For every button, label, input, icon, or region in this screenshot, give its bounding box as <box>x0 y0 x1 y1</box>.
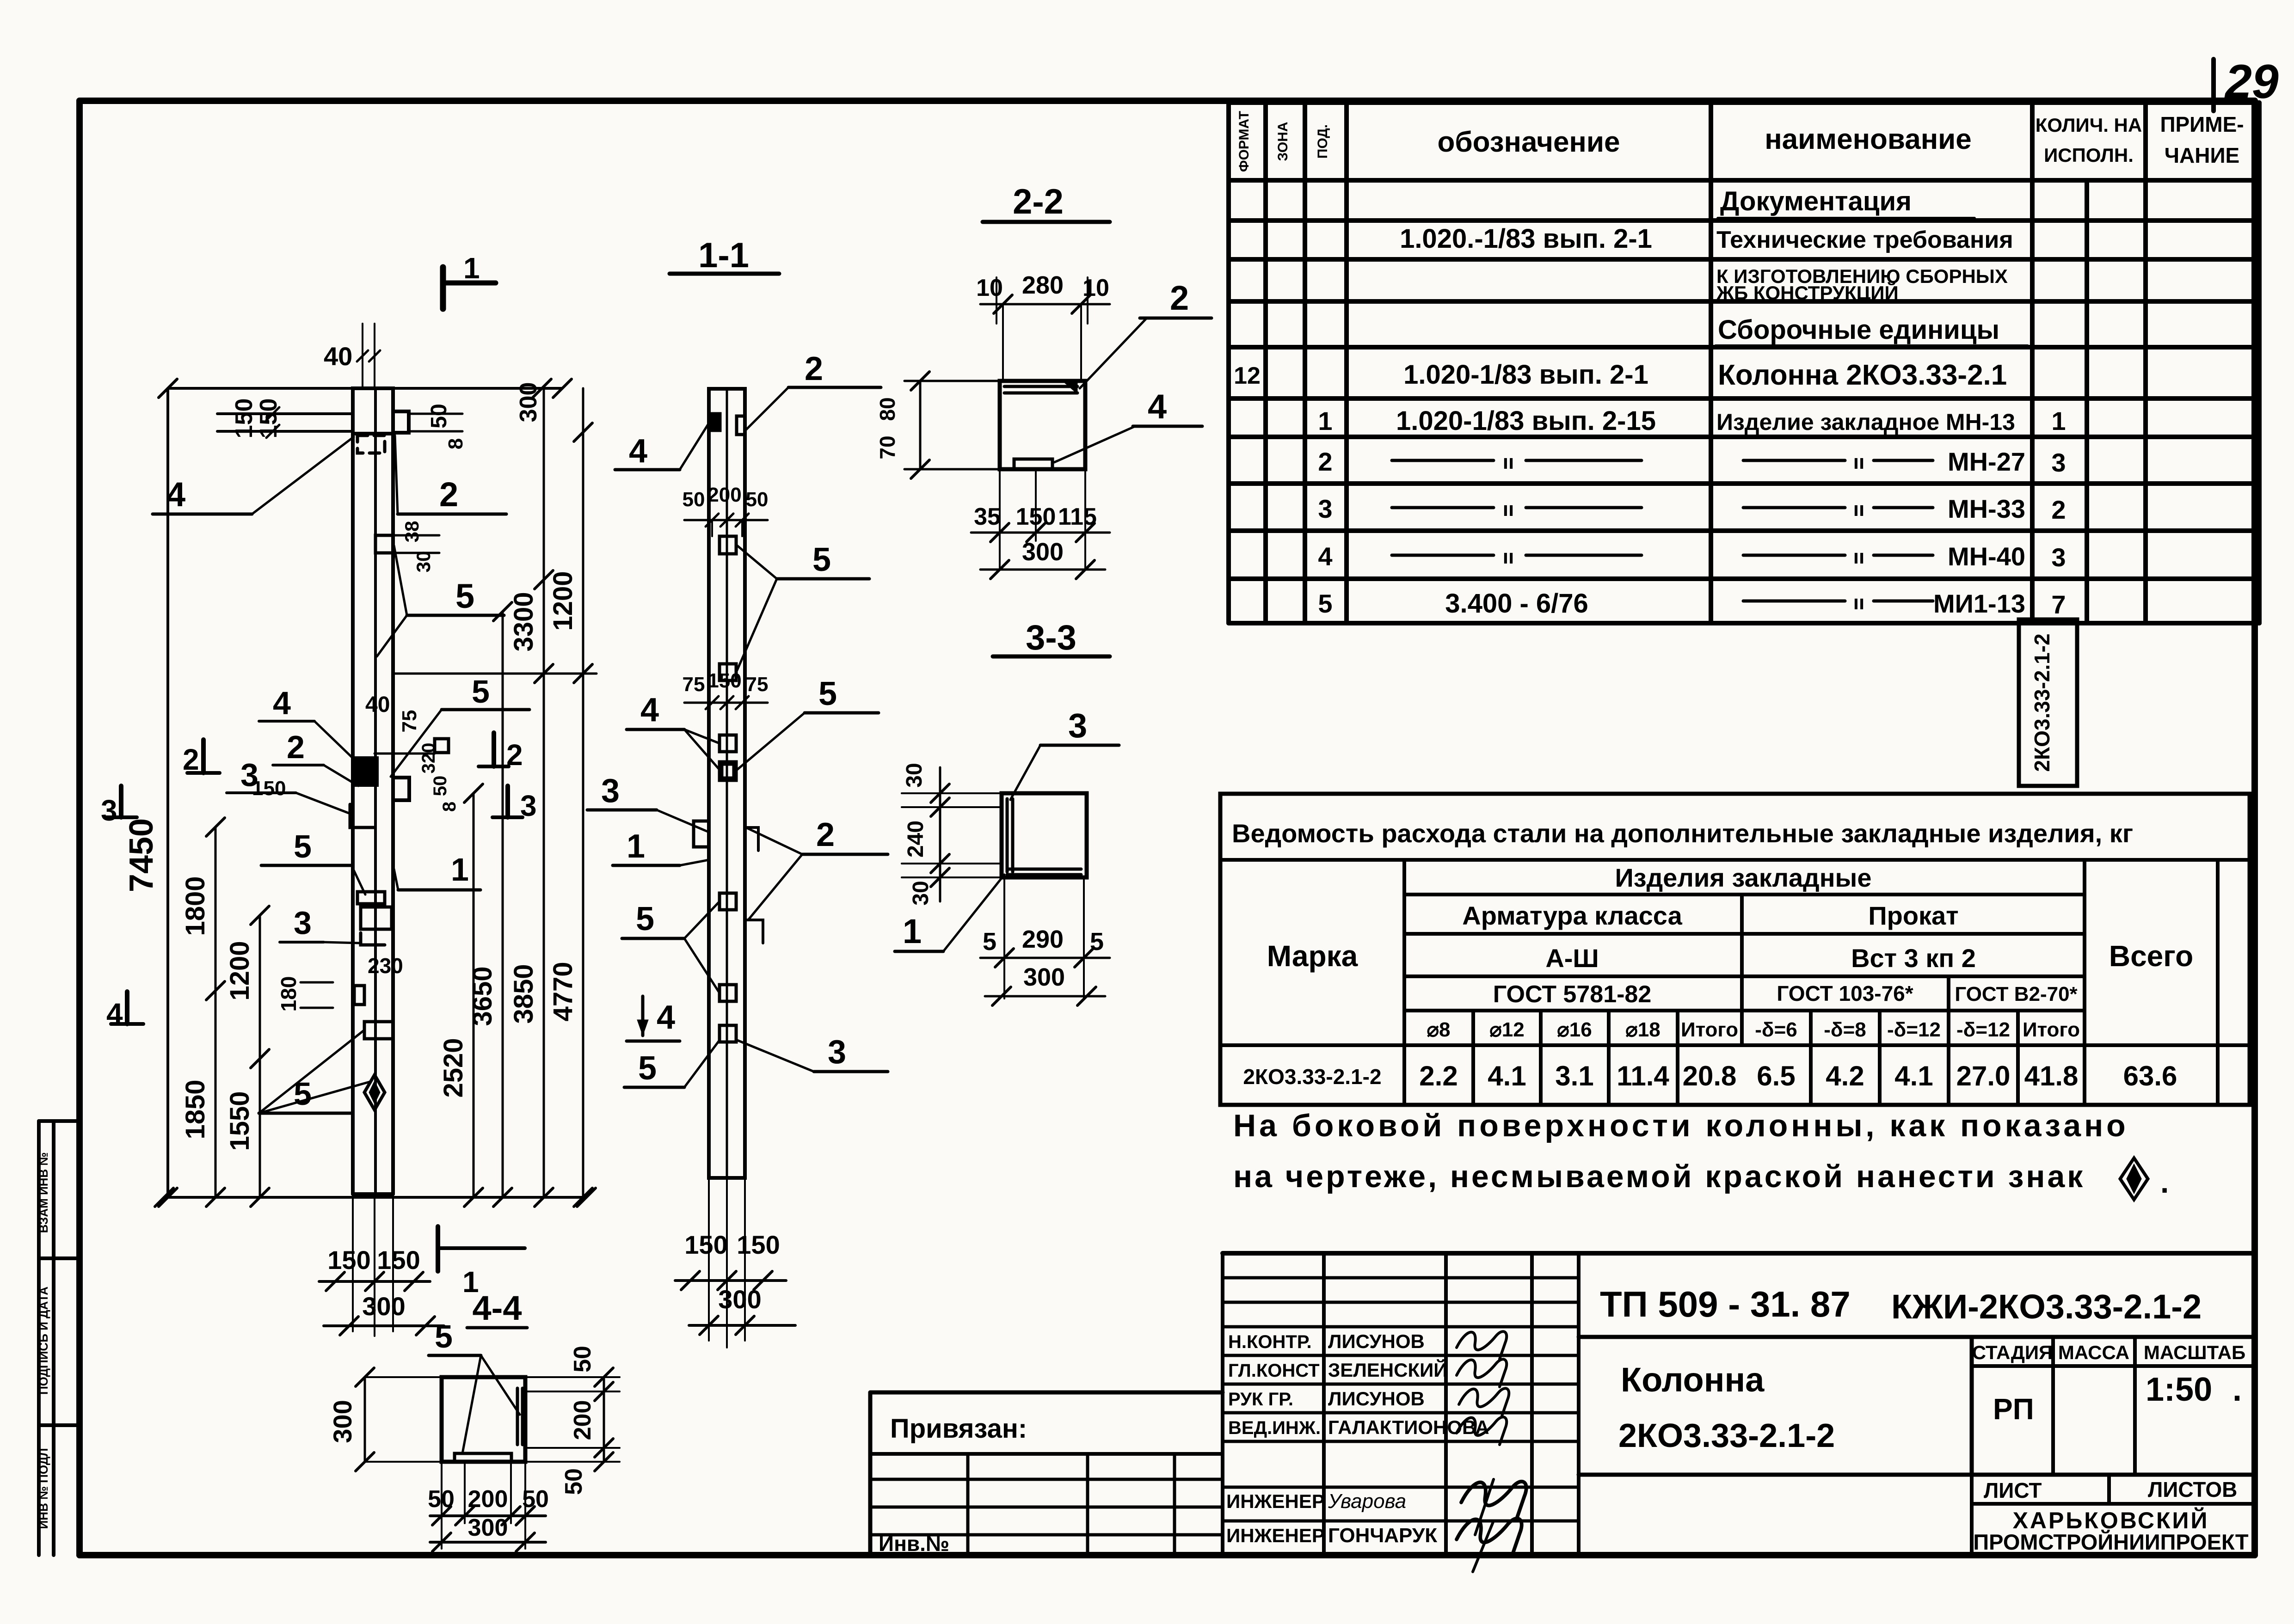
svg-text:230: 230 <box>368 954 403 978</box>
svg-text:обозначение: обозначение <box>1438 126 1620 158</box>
svg-text:2: 2 <box>1318 447 1332 476</box>
svg-text:2: 2 <box>1170 279 1189 317</box>
svg-text:2КО3.33-2.1-2: 2КО3.33-2.1-2 <box>1618 1417 1835 1454</box>
svg-text:МН-33: МН-33 <box>1948 494 2025 523</box>
svg-text:1-1: 1-1 <box>698 236 749 275</box>
svg-text:5: 5 <box>636 901 654 938</box>
svg-text:150: 150 <box>231 398 258 439</box>
svg-text:4.1: 4.1 <box>1488 1060 1526 1091</box>
svg-text:ВЕД.ИНЖ.: ВЕД.ИНЖ. <box>1228 1418 1321 1438</box>
svg-text:ПОД.: ПОД. <box>1315 124 1330 159</box>
svg-text:280: 280 <box>1022 271 1064 299</box>
svg-text:300: 300 <box>328 1400 357 1443</box>
svg-text:Н.КОНТР.: Н.КОНТР. <box>1228 1332 1312 1352</box>
svg-text:Изделия закладные: Изделия закладные <box>1615 863 1871 892</box>
svg-text:ЛИСУНОВ: ЛИСУНОВ <box>1328 1388 1425 1410</box>
svg-text:5: 5 <box>818 675 837 712</box>
svg-text:МИ1-13: МИ1-13 <box>1933 589 2025 618</box>
svg-text:1: 1 <box>451 852 469 888</box>
svg-text:ЧАНИЕ: ЧАНИЕ <box>2165 143 2240 167</box>
svg-text:27.0: 27.0 <box>1956 1060 2011 1091</box>
svg-text:320: 320 <box>418 743 439 774</box>
svg-text:Марка: Марка <box>1267 939 1358 973</box>
svg-text:4: 4 <box>657 999 675 1036</box>
svg-text:1550: 1550 <box>225 1091 255 1151</box>
svg-text:1: 1 <box>903 912 922 950</box>
svg-text:1.020-1/83 вып. 2-15: 1.020-1/83 вып. 2-15 <box>1396 406 1656 436</box>
svg-text:200: 200 <box>569 1400 596 1440</box>
svg-text:ЗЕЛЕНСКИЙ: ЗЕЛЕНСКИЙ <box>1328 1359 1447 1381</box>
svg-text:Инв.№: Инв.№ <box>879 1532 949 1556</box>
svg-text:Прокат: Прокат <box>1868 901 1958 930</box>
svg-text:Технические требования: Технические требования <box>1716 227 2013 253</box>
svg-text:300: 300 <box>1023 963 1065 991</box>
svg-text:МН-27: МН-27 <box>1948 447 2025 476</box>
svg-text:3: 3 <box>1318 494 1332 523</box>
svg-text:150: 150 <box>327 1245 370 1275</box>
svg-text:1800: 1800 <box>180 876 210 936</box>
svg-text:Итого: Итого <box>1681 1018 1738 1041</box>
svg-text:3-3: 3-3 <box>1026 618 1076 657</box>
svg-text:4: 4 <box>1318 542 1332 571</box>
svg-text:СТАДИЯ: СТАДИЯ <box>1972 1342 2053 1363</box>
svg-text:3650: 3650 <box>467 966 498 1026</box>
svg-text:ıı: ıı <box>1853 498 1864 521</box>
svg-text:4-4: 4-4 <box>473 1289 522 1327</box>
svg-text:ıı: ıı <box>1853 591 1864 614</box>
svg-text:200: 200 <box>707 484 741 506</box>
svg-text:3: 3 <box>601 772 620 809</box>
svg-text:ПРИМЕ-: ПРИМЕ- <box>2160 112 2244 136</box>
svg-text:-δ=6: -δ=6 <box>1755 1018 1797 1041</box>
svg-text:38: 38 <box>401 521 423 543</box>
svg-text:.: . <box>2232 1371 2242 1408</box>
svg-text:Колонна 2КО3.33-2.1: Колонна 2КО3.33-2.1 <box>1718 359 2007 391</box>
svg-text:наименование: наименование <box>1765 123 1972 155</box>
svg-text:ИНЖЕНЕР: ИНЖЕНЕР <box>1226 1525 1325 1546</box>
svg-text:ИНЖЕНЕР: ИНЖЕНЕР <box>1226 1490 1325 1512</box>
svg-text:63.6: 63.6 <box>2123 1060 2177 1091</box>
svg-text:300: 300 <box>515 382 542 423</box>
svg-text:300: 300 <box>362 1292 405 1321</box>
svg-text:МАССА: МАССА <box>2058 1342 2129 1363</box>
svg-text:150: 150 <box>737 1230 780 1259</box>
svg-text:180: 180 <box>277 976 301 1012</box>
svg-text:8: 8 <box>444 438 467 449</box>
svg-text:3: 3 <box>2051 448 2066 477</box>
svg-text:300: 300 <box>718 1285 761 1314</box>
svg-text:11.4: 11.4 <box>1617 1060 1669 1091</box>
svg-text:ГЛ.КОНСТ: ГЛ.КОНСТ <box>1228 1360 1320 1381</box>
svg-text:ГОСТ 5781-82: ГОСТ 5781-82 <box>1493 981 1652 1008</box>
svg-text:2КО3.33-2.1-2: 2КО3.33-2.1-2 <box>1243 1065 1381 1089</box>
svg-text:3: 3 <box>101 794 117 827</box>
svg-text:ıı: ıı <box>1853 545 1864 568</box>
svg-text:7450: 7450 <box>123 818 160 892</box>
svg-text:6.5: 6.5 <box>1757 1060 1795 1091</box>
svg-text:Сборочные единицы: Сборочные единицы <box>1718 315 1999 345</box>
svg-text:2: 2 <box>439 475 458 514</box>
svg-text:75: 75 <box>683 673 705 696</box>
svg-text:1200: 1200 <box>548 571 578 631</box>
svg-text:-δ=8: -δ=8 <box>1824 1018 1866 1041</box>
svg-text:Ведомость расхода стали на: Ведомость расхода стали на дополнительны… <box>1232 819 2133 848</box>
svg-text:ıı: ıı <box>1503 545 1514 568</box>
svg-text:150: 150 <box>255 398 282 439</box>
svg-text:2: 2 <box>2051 495 2066 524</box>
svg-text:⌀12: ⌀12 <box>1489 1018 1524 1041</box>
svg-text:ПРОМСТРОЙНИИПРОЕКТ: ПРОМСТРОЙНИИПРОЕКТ <box>1973 1530 2249 1554</box>
svg-text:2: 2 <box>287 729 305 765</box>
svg-text:1: 1 <box>627 828 645 865</box>
svg-text:Вст 3 кп 2: Вст 3 кп 2 <box>1851 944 1976 973</box>
svg-text:1200: 1200 <box>225 941 255 1000</box>
svg-text:РУК ГР.: РУК ГР. <box>1228 1389 1293 1410</box>
svg-text:⌀8: ⌀8 <box>1427 1018 1451 1041</box>
svg-text:290: 290 <box>1022 925 1064 953</box>
svg-text:10: 10 <box>976 275 1003 301</box>
svg-text:8: 8 <box>439 802 460 812</box>
svg-text:4: 4 <box>166 475 185 514</box>
svg-text:75: 75 <box>746 673 769 696</box>
svg-text:на чертеже, несмываемой крас: на чертеже, несмываемой краской нанести … <box>1233 1159 2085 1194</box>
svg-text:30: 30 <box>902 763 927 787</box>
svg-text:2: 2 <box>816 816 835 853</box>
svg-text:50: 50 <box>427 404 451 428</box>
svg-text:1.020.-1/83 вып. 2-1: 1.020.-1/83 вып. 2-1 <box>1400 224 1652 254</box>
svg-text:5: 5 <box>638 1050 657 1087</box>
svg-text:4: 4 <box>273 685 291 721</box>
svg-text:30: 30 <box>412 551 434 573</box>
svg-text:5: 5 <box>435 1318 453 1354</box>
svg-text:35: 35 <box>974 503 1001 530</box>
svg-text:300: 300 <box>1022 538 1064 566</box>
svg-text:ИНВ № ПОДЛ: ИНВ № ПОДЛ <box>37 1448 50 1529</box>
svg-text:5: 5 <box>455 577 474 615</box>
svg-text:5: 5 <box>472 674 490 710</box>
svg-text:.: . <box>2160 1165 2169 1199</box>
svg-text:⌀18: ⌀18 <box>1625 1018 1660 1041</box>
svg-text:50: 50 <box>683 488 705 511</box>
svg-text:ПОДПИСЬ И ДАТА: ПОДПИСЬ И ДАТА <box>37 1287 50 1395</box>
svg-text:50: 50 <box>746 488 769 511</box>
svg-text:ГОНЧАРУК: ГОНЧАРУК <box>1328 1524 1437 1547</box>
svg-text:3: 3 <box>1068 706 1087 745</box>
svg-text:2-2: 2-2 <box>1013 182 1064 221</box>
svg-text:ЛИСТ: ЛИСТ <box>1984 1478 2042 1502</box>
svg-text:КОЛИЧ. НА: КОЛИЧ. НА <box>2036 114 2142 136</box>
svg-text:ЛИСУНОВ: ЛИСУНОВ <box>1328 1330 1425 1352</box>
svg-text:Колонна: Колонна <box>1621 1360 1765 1399</box>
svg-text:70: 70 <box>875 435 899 459</box>
svg-text:3: 3 <box>828 1034 846 1071</box>
svg-text:3300: 3300 <box>509 592 539 651</box>
svg-text:На боковой поверхности коло: На боковой поверхности колонны, как пока… <box>1233 1108 2129 1143</box>
svg-text:⌀16: ⌀16 <box>1557 1018 1592 1041</box>
svg-text:50: 50 <box>430 776 450 797</box>
svg-text:150: 150 <box>377 1245 420 1275</box>
svg-text:300: 300 <box>468 1514 508 1541</box>
svg-text:3: 3 <box>2051 543 2066 572</box>
svg-text:ГОСТ 103-76*: ГОСТ 103-76* <box>1777 981 1913 1005</box>
svg-text:ГОСТ В2-70*: ГОСТ В2-70* <box>1955 983 2078 1005</box>
svg-text:МН-40: МН-40 <box>1948 542 2025 571</box>
svg-text:3850: 3850 <box>509 964 539 1023</box>
svg-text:2КО3.33-2.1-2: 2КО3.33-2.1-2 <box>2030 633 2054 772</box>
svg-text:1850: 1850 <box>180 1079 210 1139</box>
svg-text:ФОРМАТ: ФОРМАТ <box>1236 111 1252 172</box>
svg-text:1: 1 <box>463 251 480 285</box>
svg-text:2: 2 <box>805 350 823 387</box>
svg-text:80: 80 <box>875 397 899 421</box>
svg-text:А-Ш: А-Ш <box>1545 944 1599 973</box>
svg-text:ЖБ КОНСТРУКЦИЙ: ЖБ КОНСТРУКЦИЙ <box>1716 282 1899 304</box>
svg-text:40: 40 <box>365 692 390 717</box>
svg-text:75: 75 <box>398 710 421 733</box>
svg-text:150: 150 <box>707 669 741 692</box>
svg-text:40: 40 <box>324 342 352 371</box>
svg-text:2.2: 2.2 <box>1419 1060 1458 1091</box>
svg-text:5: 5 <box>812 541 831 578</box>
svg-text:30: 30 <box>909 881 933 905</box>
svg-text:-δ=12: -δ=12 <box>1956 1018 2010 1041</box>
svg-text:4: 4 <box>629 433 647 470</box>
svg-text:ЛИСТОВ: ЛИСТОВ <box>2148 1477 2237 1501</box>
svg-text:41.8: 41.8 <box>2024 1060 2079 1091</box>
svg-text:ВЗАМ ИНВ №: ВЗАМ ИНВ № <box>37 1152 50 1233</box>
svg-text:ЗОНА: ЗОНА <box>1275 122 1291 161</box>
svg-text:1:50: 1:50 <box>2146 1371 2212 1408</box>
svg-text:50: 50 <box>522 1486 549 1513</box>
svg-text:3.400 - 6/76: 3.400 - 6/76 <box>1445 588 1588 619</box>
svg-text:ТП 509 - 31. 87: ТП 509 - 31. 87 <box>1600 1284 1851 1324</box>
svg-text:20.8: 20.8 <box>1683 1060 1737 1091</box>
svg-text:1: 1 <box>1318 406 1332 435</box>
svg-text:2520: 2520 <box>438 1038 468 1097</box>
svg-text:5: 5 <box>1318 589 1332 618</box>
svg-text:Арматура класса: Арматура класса <box>1462 901 1682 930</box>
svg-text:1: 1 <box>2051 406 2066 435</box>
svg-text:ıı: ıı <box>1853 451 1864 473</box>
svg-text:5: 5 <box>294 828 312 864</box>
svg-text:7: 7 <box>2051 590 2066 619</box>
svg-text:3: 3 <box>240 757 258 793</box>
svg-text:3: 3 <box>294 905 312 941</box>
svg-text:-δ=12: -δ=12 <box>1887 1018 1941 1041</box>
svg-text:5: 5 <box>983 928 996 956</box>
svg-text:РП: РП <box>1993 1392 2034 1426</box>
svg-text:50: 50 <box>560 1468 587 1495</box>
svg-text:Документация: Документация <box>1720 186 1912 216</box>
svg-text:150: 150 <box>684 1230 727 1259</box>
svg-text:12: 12 <box>1234 362 1261 389</box>
svg-text:Изделие закладное МН-13: Изделие закладное МН-13 <box>1716 409 2015 435</box>
svg-text:КЖИ-2КО3.33-2.1-2: КЖИ-2КО3.33-2.1-2 <box>1891 1287 2202 1326</box>
svg-text:3.1: 3.1 <box>1555 1060 1593 1091</box>
svg-text:ıı: ıı <box>1503 451 1514 473</box>
svg-text:4: 4 <box>640 692 659 729</box>
svg-text:ИСПОЛН.: ИСПОЛН. <box>2044 144 2134 166</box>
svg-text:5: 5 <box>294 1076 312 1112</box>
svg-text:МАСШТАБ: МАСШТАБ <box>2144 1342 2245 1363</box>
svg-text:Привязан:: Привязан: <box>890 1414 1027 1444</box>
svg-text:50: 50 <box>569 1346 596 1373</box>
svg-text:Уварова: Уварова <box>1328 1490 1406 1513</box>
svg-text:4770: 4770 <box>548 962 578 1021</box>
svg-text:4.2: 4.2 <box>1826 1060 1864 1091</box>
svg-text:Итого: Итого <box>2023 1018 2080 1041</box>
svg-text:1.020-1/83 вып. 2-1: 1.020-1/83 вып. 2-1 <box>1403 360 1648 390</box>
svg-text:4: 4 <box>1148 387 1167 426</box>
svg-text:ıı: ıı <box>1503 498 1514 521</box>
svg-text:4.1: 4.1 <box>1894 1060 1933 1091</box>
svg-text:240: 240 <box>904 821 928 858</box>
svg-text:Всего: Всего <box>2109 939 2193 973</box>
